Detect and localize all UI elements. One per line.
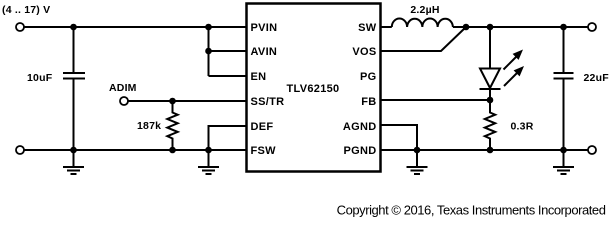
node junction C2 top bbox=[560, 24, 567, 31]
svg-text:SS/TR: SS/TR bbox=[251, 96, 285, 108]
terminal ADIM bbox=[120, 97, 128, 105]
node junction R1 top on SS/TR wire bbox=[169, 98, 176, 105]
ground under AGND bbox=[407, 150, 428, 174]
wire bottom rail left bbox=[24, 149, 246, 151]
node junction VOS feedback bbox=[463, 24, 470, 31]
wire top rail from VIN terminal to PVIN bbox=[24, 26, 246, 28]
node junction R2 bottom rail bbox=[487, 147, 494, 154]
svg-text:PVIN: PVIN bbox=[251, 22, 278, 34]
wire C2 bottom lead bbox=[563, 80, 565, 151]
capacitor C2 22uF plates bbox=[554, 72, 574, 74]
wire vertical PVIN to EN bbox=[208, 27, 210, 76]
node junction C1 bottom rail bbox=[70, 147, 77, 154]
wire VOS with diagonal bbox=[381, 27, 467, 51]
svg-text:22uF: 22uF bbox=[584, 72, 610, 84]
wire AGND to ground bbox=[381, 125, 418, 150]
wire ADIM to SS/TR bbox=[128, 100, 246, 102]
wire FB bbox=[381, 99, 491, 101]
svg-text:SW: SW bbox=[358, 22, 377, 34]
LED arrow 2 bbox=[504, 50, 524, 70]
terminal output top-right bbox=[588, 23, 596, 31]
svg-text:187k: 187k bbox=[137, 120, 161, 132]
node junction AGND bottom rail bbox=[414, 147, 421, 154]
resistor R2 0.3R bbox=[485, 100, 495, 150]
svg-text:FSW: FSW bbox=[251, 145, 277, 157]
wire C1 top lead bbox=[73, 27, 75, 72]
node junction input cap / top rail bbox=[70, 24, 77, 31]
wire C1 bottom lead bbox=[73, 80, 75, 151]
wire EN bbox=[209, 75, 247, 77]
svg-text:PGND: PGND bbox=[344, 145, 377, 157]
svg-text:0.3R: 0.3R bbox=[511, 121, 534, 133]
svg-text:PG: PG bbox=[360, 71, 377, 83]
node junction AVIN branch bbox=[205, 48, 212, 55]
node junction C2 bottom rail bbox=[560, 147, 567, 154]
node junction PVIN/AVIN branch bbox=[205, 24, 212, 31]
wire DEF to ground bbox=[209, 126, 247, 150]
diode D1 LED triangle bbox=[480, 69, 500, 89]
wire SW pin to inductor bbox=[381, 26, 392, 28]
LED arrow 1 bbox=[504, 66, 524, 86]
node junction LED branch bbox=[487, 24, 494, 31]
node junction FB / LED cathode bbox=[487, 97, 494, 104]
svg-text:10uF: 10uF bbox=[27, 72, 53, 84]
svg-text:EN: EN bbox=[251, 71, 267, 83]
svg-text:FB: FB bbox=[361, 96, 376, 108]
op-amp U1 TLV62150 box bbox=[247, 4, 381, 172]
svg-text:Copyright © 2016, Texas Instru: Copyright © 2016, Texas Instruments Inco… bbox=[337, 203, 606, 218]
resistor R1 187k bbox=[167, 101, 177, 150]
diode D1 cathode bar bbox=[480, 88, 501, 90]
ground under C1 bbox=[63, 150, 84, 174]
svg-text:(4 .. 17) V: (4 .. 17) V bbox=[2, 4, 50, 16]
wire top rail right bbox=[453, 26, 588, 28]
inductor L1 2.2uH bbox=[392, 19, 453, 28]
node junction R1 bottom rail bbox=[169, 147, 176, 154]
capacitor C1 10uF plates bbox=[63, 72, 85, 74]
svg-text:AGND: AGND bbox=[343, 121, 377, 133]
wire LED anode lead bbox=[489, 27, 491, 69]
svg-text:2.2µH: 2.2µH bbox=[410, 4, 439, 16]
wire C2 top lead bbox=[563, 27, 565, 72]
svg-text:VOS: VOS bbox=[352, 46, 376, 58]
ground under DEF bbox=[198, 150, 219, 174]
ground under C2 bbox=[553, 150, 574, 174]
wire bottom rail right bbox=[381, 149, 589, 151]
terminal VIN top-left bbox=[16, 23, 24, 31]
node junction DEF bottom rail bbox=[205, 147, 212, 154]
svg-text:TLV62150: TLV62150 bbox=[287, 83, 340, 95]
wire LED cathode lead bbox=[489, 89, 491, 100]
svg-text:ADIM: ADIM bbox=[109, 82, 137, 94]
wire AVIN bbox=[209, 50, 247, 52]
terminal bottom-left bbox=[16, 146, 24, 154]
svg-text:AVIN: AVIN bbox=[251, 46, 278, 58]
terminal bottom-right bbox=[588, 146, 596, 154]
svg-text:DEF: DEF bbox=[251, 121, 274, 133]
